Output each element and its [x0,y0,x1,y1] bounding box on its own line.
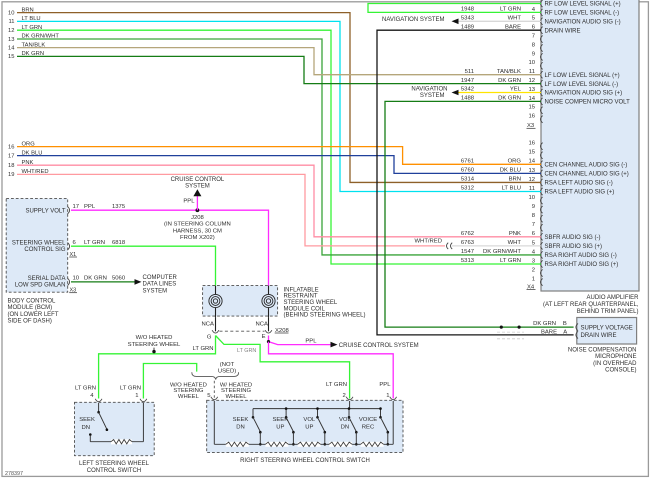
svg-text:2: 2 [343,393,346,399]
svg-text:2: 2 [532,267,535,273]
right steering wheel control switch box [207,400,403,452]
svg-text:7: 7 [532,34,535,40]
svg-text:LT GRN: LT GRN [120,385,141,391]
wire PPL pin E branch to cruise control system [269,336,332,345]
svg-text:E: E [262,334,266,340]
svg-text:PPL: PPL [305,338,317,344]
svg-text:6761: 6761 [461,159,474,165]
svg-text:(IN STEERING COLUMN: (IN STEERING COLUMN [164,222,231,228]
wire 1375 PPL BCM to coil pin E [71,210,269,285]
svg-text:(IN OVERHEAD: (IN OVERHEAD [593,361,637,367]
svg-text:PPL: PPL [183,198,195,204]
svg-text:SERIAL DATA: SERIAL DATA [28,276,66,282]
svg-text:15: 15 [528,105,535,111]
svg-text:LF LOW LEVEL SIGNAL (-): LF LOW LEVEL SIGNAL (-) [545,82,619,88]
svg-text:12: 12 [8,28,14,34]
connector X208 pins G and E [212,330,219,333]
svg-text:CRUISE CONTROL SYSTEM: CRUISE CONTROL SYSTEM [339,343,419,349]
svg-text:(BEHIND STEERING WHEEL): (BEHIND STEERING WHEEL) [284,313,366,319]
svg-text:SIDE OF DASH): SIDE OF DASH) [8,319,52,325]
svg-text:14: 14 [8,45,15,51]
svg-text:5314: 5314 [461,177,475,183]
svg-text:HARNESS, 30 CM: HARNESS, 30 CM [173,228,222,234]
svg-text:CONTROL SWITCH: CONTROL SWITCH [87,468,141,474]
svg-text:LT GRN: LT GRN [84,240,105,246]
svg-text:6760: 6760 [461,168,475,174]
wire 5343 WHT from navigation system to X3 pin 5 [458,20,541,22]
svg-text:BODY CONTROL: BODY CONTROL [8,298,57,304]
svg-text:YEL: YEL [510,87,522,93]
svg-text:1947: 1947 [461,78,474,84]
svg-text:16: 16 [528,114,535,120]
svg-text:DK GRN: DK GRN [84,276,107,282]
svg-text:5312: 5312 [461,186,474,192]
svg-text:MODULE (BCM): MODULE (BCM) [8,305,53,311]
svg-text:1489: 1489 [461,24,474,30]
left switch pin 1 [140,399,147,402]
seek down switch [98,403,100,411]
coil pigtails to connector X208 [215,317,217,331]
svg-text:(AT LEFT REAR QUARTERPANEL,: (AT LEFT REAR QUARTERPANEL, [543,302,639,308]
svg-text:LT GRN: LT GRN [500,7,521,13]
svg-text:LT GRN: LT GRN [326,382,347,388]
right switch resistor ladder [213,401,215,444]
svg-text:STEERING WHEEL: STEERING WHEEL [12,240,66,246]
svg-text:5060: 5060 [112,276,126,282]
svg-text:DK BLU: DK BLU [500,168,521,174]
svg-text:18: 18 [8,163,14,169]
wire 1488 DK GRN X3 pin14 to microphone pin B [385,101,574,327]
svg-text:PPL: PPL [84,204,96,210]
svg-text:278397: 278397 [5,471,23,477]
wire 5342 YEL from navigation system to X3 pin 13 [458,92,541,94]
svg-text:CEN CHANNEL AUDIO SIG (+): CEN CHANNEL AUDIO SIG (+) [545,172,629,178]
left switch pin 4 [95,399,102,402]
svg-text:10: 10 [528,60,535,66]
svg-text:SEEK: SEEK [233,417,249,423]
svg-text:13: 13 [8,37,14,43]
svg-text:17: 17 [73,204,80,210]
svg-text:LT GRN: LT GRN [237,348,256,354]
svg-text:9: 9 [532,204,535,210]
svg-text:INFLATABLE: INFLATABLE [284,287,319,293]
svg-text:10: 10 [528,195,535,201]
svg-text:PNK: PNK [509,231,521,237]
svg-text:5313: 5313 [461,258,475,264]
svg-text:CONTROL SIG: CONTROL SIG [24,247,65,253]
svg-text:G: G [207,335,212,341]
microphone pin A drain wire [576,331,578,338]
coil left winding [213,299,217,303]
right switch pin 1 [390,397,397,400]
svg-text:6818: 6818 [112,240,126,246]
svg-text:1547: 1547 [461,249,474,255]
svg-text:ORG: ORG [508,159,522,165]
svg-text:6763: 6763 [461,240,475,246]
svg-text:SBFR AUDIO SIG (+): SBFR AUDIO SIG (+) [545,244,603,250]
svg-text:SUPPLY VOLTAGE: SUPPLY VOLTAGE [581,325,633,331]
svg-text:USED): USED) [218,369,236,375]
svg-text:J208: J208 [191,215,204,221]
inline connector on DK GRN wire [500,326,503,329]
svg-text:15: 15 [528,150,535,156]
wire PPL pin E to right switch pin 1 [269,342,394,399]
noise compensation microphone box [577,318,637,345]
svg-text:1375: 1375 [112,204,126,210]
svg-text:(ON LOWER LEFT: (ON LOWER LEFT [8,312,59,318]
splice WHT/RED to WHT [447,243,449,249]
svg-text:DN: DN [341,424,350,430]
node J208 junction [196,208,200,212]
svg-text:SEEK: SEEK [79,417,95,423]
svg-text:SUPPLY VOLT: SUPPLY VOLT [25,208,65,214]
svg-text:FROM X202): FROM X202) [180,235,215,241]
svg-text:MODULE COIL: MODULE COIL [284,306,326,312]
svg-text:LT BLU: LT BLU [502,186,521,192]
wire 1948 LT GRN jumper amp X3 pin3 to pin4 [368,4,541,13]
svg-text:5342: 5342 [461,87,474,93]
svg-text:COMPUTER: COMPUTER [143,275,178,281]
svg-text:17: 17 [8,153,14,159]
svg-text:1: 1 [386,393,389,399]
svg-text:WHEEL: WHEEL [226,394,248,400]
microphone pin B supply voltage [576,324,578,331]
svg-text:MICROPHONE: MICROPHONE [595,354,636,360]
svg-text:VOICE: VOICE [359,417,377,423]
svg-text:10: 10 [73,276,80,282]
coil right winding [266,299,270,303]
svg-text:RSA RIGHT AUDIO SIG (+): RSA RIGHT AUDIO SIG (+) [545,262,619,268]
svg-text:16: 16 [8,144,14,150]
svg-text:RSA LEFT AUDIO SIG (-): RSA LEFT AUDIO SIG (-) [545,181,613,187]
svg-text:(NOT: (NOT [220,362,235,368]
svg-text:SBFR AUDIO SIG (-): SBFR AUDIO SIG (-) [545,235,601,241]
svg-text:CEN CHANNEL AUDIO SIG (-): CEN CHANNEL AUDIO SIG (-) [545,163,628,169]
svg-text:W/O HEATED: W/O HEATED [136,335,173,341]
svg-text:WHT: WHT [508,240,522,246]
audio amplifier box [541,0,639,291]
svg-text:1488: 1488 [461,96,475,102]
svg-text:NAVIGATION AUDIO SIG (+): NAVIGATION AUDIO SIG (+) [545,91,623,97]
svg-text:REC: REC [362,424,375,430]
svg-text:AUDIO AMPLIFIER: AUDIO AMPLIFIER [586,295,639,301]
svg-text:RSA LEFT AUDIO SIG (+): RSA LEFT AUDIO SIG (+) [545,190,615,196]
svg-text:LF LOW LEVEL SIGNAL (+): LF LOW LEVEL SIGNAL (+) [545,73,620,79]
svg-text:1948: 1948 [461,7,475,13]
wire 1489 BARE drain wire X3 pin6 to microphone pin A [377,30,574,335]
svg-text:RESTRAINT: RESTRAINT [284,294,318,300]
right switch top rail [253,408,381,410]
amplifier pin function labels [545,2,631,269]
svg-text:STEERING WHEEL: STEERING WHEEL [284,300,338,306]
svg-text:15: 15 [8,54,14,60]
svg-text:DK GRN: DK GRN [533,321,556,327]
svg-text:RIGHT STEERING WHEEL CONTROL S: RIGHT STEERING WHEEL CONTROL SWITCH [240,458,370,464]
svg-text:CONSOLE): CONSOLE) [605,368,636,374]
body control module box [6,199,67,293]
svg-text:UP: UP [276,424,284,430]
dashed option wire to right switch pin 5 [213,381,215,399]
svg-text:TAN/BLK: TAN/BLK [497,69,521,75]
svg-text:DK GRN: DK GRN [498,78,521,84]
svg-text:DN: DN [236,424,245,430]
svg-text:10: 10 [8,10,14,16]
svg-text:LT GRN: LT GRN [193,346,214,352]
svg-text:511: 511 [465,69,474,75]
svg-text:NCA: NCA [256,322,269,328]
svg-text:NAVIGATION AUDIO SIG (-): NAVIGATION AUDIO SIG (-) [545,20,621,26]
svg-text:SEEK: SEEK [272,417,288,423]
svg-text:STEERING WHEEL: STEERING WHEEL [128,342,181,348]
svg-text:LT GRN: LT GRN [75,385,96,391]
svg-text:DN: DN [82,425,91,431]
svg-text:RF LOW LEVEL SIGNAL (+): RF LOW LEVEL SIGNAL (+) [545,2,621,8]
svg-text:16: 16 [528,141,535,147]
svg-text:NCA: NCA [202,322,215,328]
svg-text:DRAIN WIRE: DRAIN WIRE [545,28,581,34]
wire 6818 LT GRN BCM to coil pin G [71,246,216,285]
svg-text:CRUISE CONTROL: CRUISE CONTROL [171,177,225,183]
svg-text:PPL: PPL [379,382,391,388]
option brace [192,372,239,379]
svg-text:11: 11 [8,19,14,25]
svg-text:RSA RIGHT AUDIO SIG (-): RSA RIGHT AUDIO SIG (-) [545,253,617,259]
svg-text:DATA LINES: DATA LINES [143,282,177,288]
svg-text:WHT/RED: WHT/RED [415,238,443,244]
left switch resistor [89,435,91,441]
svg-text:NAVIGATION: NAVIGATION [411,86,447,92]
svg-text:NOISE COMPENSATION: NOISE COMPENSATION [568,347,637,353]
right switch pin 2 [346,397,353,400]
wire LT GRN pin G to right switch pin 2 [216,336,350,399]
svg-text:BEHIND TRIM PANEL): BEHIND TRIM PANEL) [577,309,639,315]
svg-text:NOISE COMPEN MICRO VOLT: NOISE COMPEN MICRO VOLT [545,100,631,106]
svg-text:DK GRN: DK GRN [498,96,521,102]
svg-text:SYSTEM: SYSTEM [420,93,445,99]
svg-text:SYSTEM: SYSTEM [143,289,168,295]
svg-text:UP: UP [305,424,313,430]
svg-text:1: 1 [532,277,535,283]
svg-text:6762: 6762 [461,231,474,237]
right switch selector switches [233,407,389,445]
svg-text:A: A [563,329,567,335]
svg-text:VOL: VOL [303,417,316,423]
svg-text:LEFT STEERING WHEEL: LEFT STEERING WHEEL [79,461,150,467]
svg-text:SYSTEM: SYSTEM [185,184,210,190]
wire 5060 DK GRN to computer data lines [71,281,135,283]
svg-text:WHT: WHT [508,16,522,22]
svg-text:9: 9 [532,51,535,57]
svg-text:WHEEL: WHEEL [178,394,200,400]
svg-text:5343: 5343 [461,16,475,22]
svg-text:7: 7 [532,222,535,228]
amplifier connector X3 pins [528,7,535,283]
left steering wheel control switch box [75,402,155,455]
inflatable restraint steering wheel module coil box [203,286,278,317]
svg-text:DRAIN WIRE: DRAIN WIRE [581,333,617,339]
wire LT GRN option brace to left switch pin 1 [143,364,196,399]
svg-text:B: B [563,321,567,327]
svg-text:LT GRN: LT GRN [500,258,521,264]
svg-text:1: 1 [135,393,138,399]
svg-text:BRN: BRN [509,177,521,183]
svg-text:BARE: BARE [505,24,521,30]
wire LT GRN pin G to left switch pin 4 [99,336,216,399]
svg-text:DK GRN/WHT: DK GRN/WHT [483,249,521,255]
svg-text:BARE: BARE [541,329,557,335]
svg-text:NAVIGATION SYSTEM: NAVIGATION SYSTEM [382,17,444,23]
PPL branch to cruise control system (top) [196,196,198,211]
wire id labels at amplifier pins [461,7,522,265]
svg-text:RF LOW LEVEL SIGNAL (-): RF LOW LEVEL SIGNAL (-) [545,11,620,17]
svg-text:VOL: VOL [339,417,352,423]
svg-text:LOW SPD GMLAN: LOW SPD GMLAN [15,283,66,289]
svg-text:19: 19 [8,172,14,178]
right switch pin 5 [211,397,218,400]
